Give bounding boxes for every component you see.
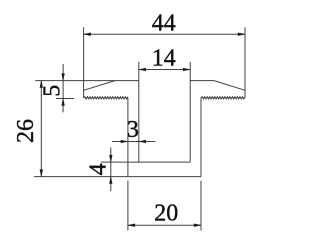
svg-text:3: 3	[127, 117, 139, 143]
svg-text:5: 5	[39, 85, 65, 97]
svg-text:20: 20	[154, 201, 178, 227]
svg-text:26: 26	[13, 119, 39, 143]
svg-text:44: 44	[152, 10, 176, 36]
svg-text:4: 4	[86, 163, 112, 175]
svg-text:14: 14	[152, 46, 176, 72]
